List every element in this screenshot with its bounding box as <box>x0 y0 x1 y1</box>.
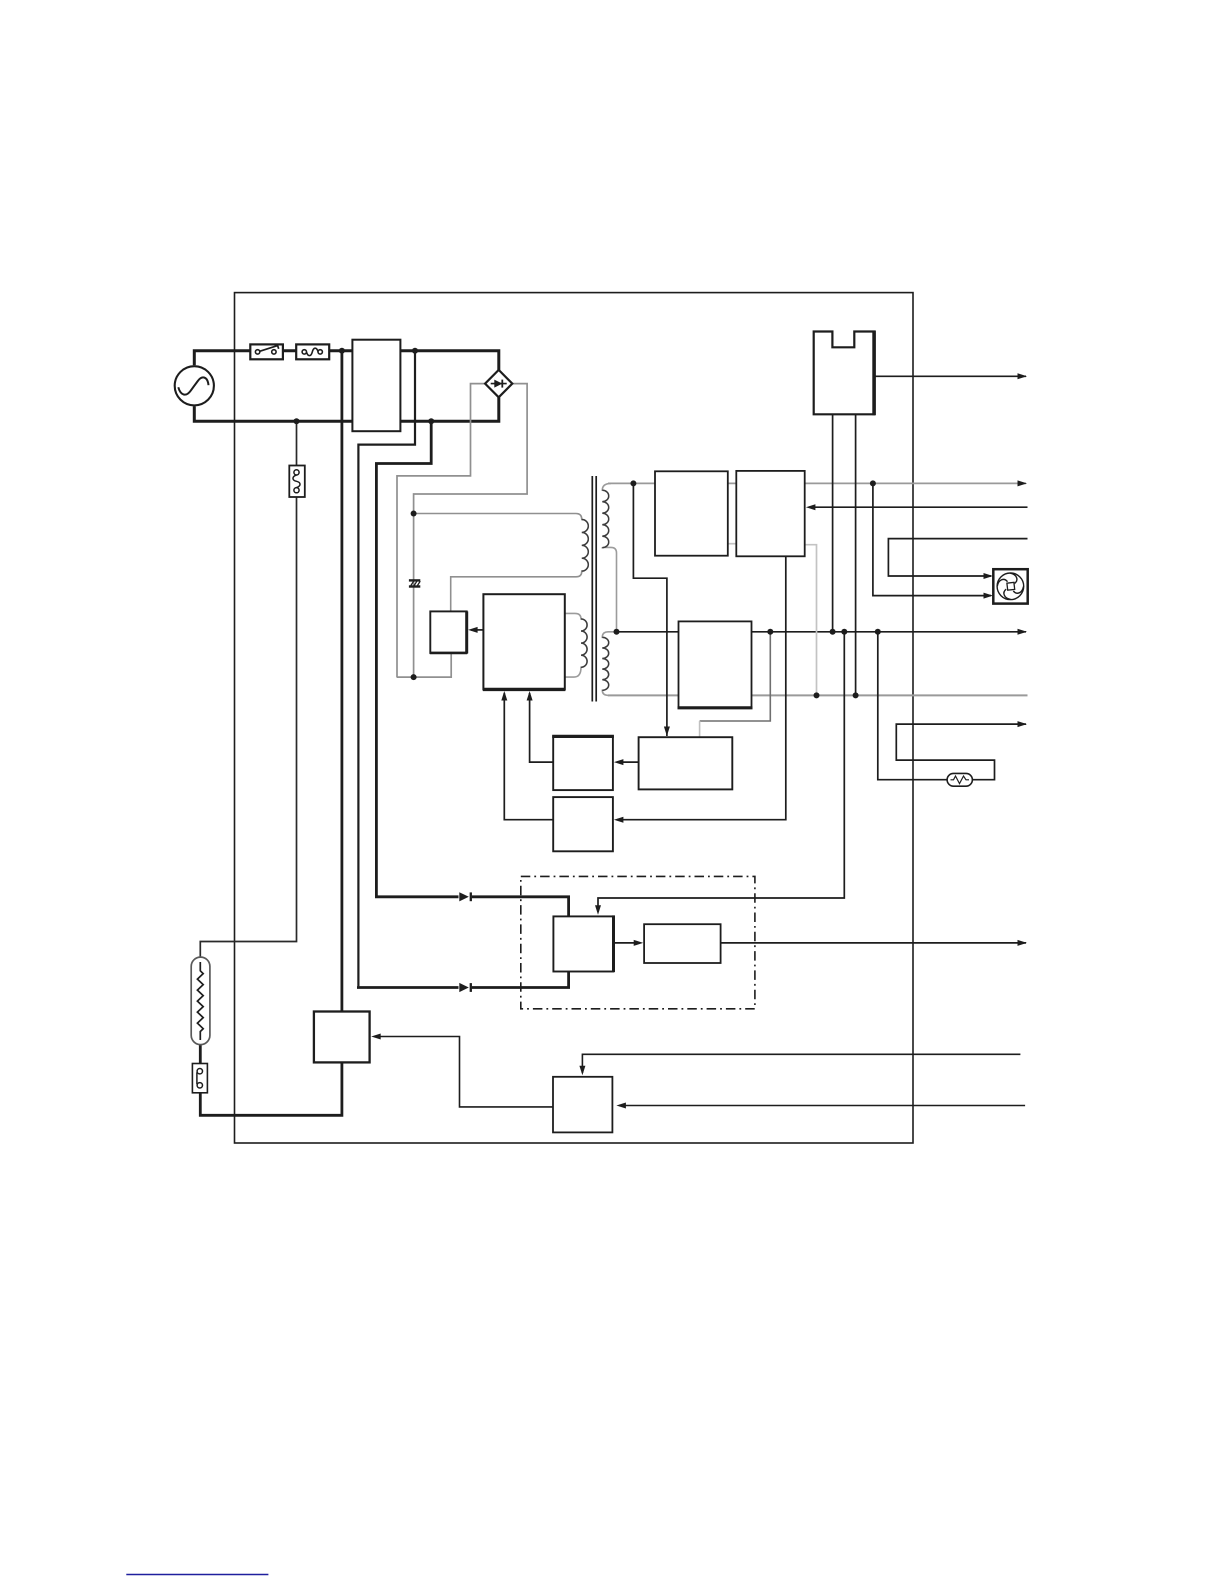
wire: fusing module output line with arrow <box>721 942 1026 944</box>
switch SW1 <box>250 344 283 359</box>
wire: thick feed into fusing module box top <box>472 897 569 917</box>
wire: secondary ground bus <box>608 694 1028 696</box>
diode D3 (bottom feed) <box>459 983 471 992</box>
transformer auxiliary winding P2 <box>565 613 587 677</box>
wire: connector output line <box>874 375 1026 377</box>
wire: connector pin 1 to mid bus <box>832 414 834 632</box>
gate driver block <box>430 611 467 653</box>
wire: N line down to fusing unit diode 2 <box>376 421 458 897</box>
transformer core <box>592 476 596 702</box>
wire: regulator to ground bus (light) <box>805 545 817 696</box>
heater triac block <box>314 1012 370 1063</box>
wire: fan drive from +24V bus <box>873 483 991 595</box>
diode D2 (top feed) <box>459 892 471 901</box>
wire: thermistor sensing loop with output arrow <box>878 632 1026 780</box>
PWM control IC block U1 <box>483 594 565 689</box>
wire: bridge positive output to primary winding <box>414 384 527 514</box>
heater lamp H1 <box>191 957 210 1045</box>
wire: triac control input from drive block <box>374 1037 553 1107</box>
photocoupler B block <box>553 797 613 851</box>
chassis ground symbol <box>409 580 420 586</box>
wire: remote input to regulator <box>809 506 1028 508</box>
wire: photocoupler B to PWM controller <box>504 693 553 820</box>
wire: primary ground horizontal to switching device <box>397 653 452 677</box>
power supply unit boundary box <box>235 293 914 1143</box>
wire: +24V tap to error amp input <box>633 483 667 736</box>
error amp block <box>639 737 733 789</box>
transformer secondary winding S1 <box>602 483 616 631</box>
wire: +24V secondary bus with output arrow <box>608 482 1026 484</box>
wire: error amp to photocoupler A <box>617 761 639 763</box>
thermistor TH1 <box>947 773 972 786</box>
wire: inter-block link between rectifier and regulator <box>725 543 739 545</box>
wire: bridge negative output to primary ground bus <box>397 384 485 677</box>
fuse F1 <box>296 344 329 359</box>
wire: photocoupler A to PWM controller <box>530 693 554 762</box>
transformer primary winding P1 <box>414 514 589 612</box>
wire: AC bottom rail (N) <box>194 397 499 421</box>
wire: regulator bottom to photocoupler B <box>617 556 786 819</box>
bridge rectifier D1 <box>485 370 512 397</box>
fusing control module dash-dot boundary <box>521 876 755 1008</box>
secondary output block <box>678 621 753 707</box>
heater drive block <box>553 1077 612 1133</box>
fusing module output block <box>644 924 721 963</box>
AC source G1 <box>175 366 214 405</box>
thermostat TS1 <box>192 1064 207 1093</box>
wire: connector pin 2 to ground bus <box>855 414 857 695</box>
wire: secondary mid bus with output arrow <box>617 631 1027 633</box>
wire: control input from mid bus down to error amp <box>700 632 771 721</box>
arrowheads <box>371 373 1027 1108</box>
wire: L line horizontal run into diode <box>357 986 459 989</box>
junction dots <box>294 348 881 699</box>
regulator block <box>736 471 804 556</box>
connector CN1 <box>814 331 874 416</box>
transformer secondary winding S2 <box>602 632 616 696</box>
wire: feedback from mid bus into fusing control <box>598 632 844 912</box>
noise filter block <box>352 340 400 432</box>
secondary rectifier block <box>655 471 728 555</box>
wire: drive block top input line <box>582 1054 1020 1073</box>
wire: thermal fuse to heater lamp top <box>200 421 296 971</box>
wire: PWM controller to gate driver arrow <box>471 629 483 631</box>
wire: fusing switch to output block arrow <box>614 942 641 944</box>
wire: primary ground vertical through chassis symbol <box>413 514 415 678</box>
wire: L line down to fusing unit diode 1 <box>358 351 415 987</box>
wire: drive block right input line <box>619 1105 1025 1107</box>
wire: live feed to heater control triac <box>340 351 343 1012</box>
wire: control input light segment into error amp top <box>699 721 701 737</box>
wire: fan supply input loop <box>888 539 1027 576</box>
thermal fuse F2 <box>289 466 305 498</box>
photocoupler A block <box>552 736 614 790</box>
fusing module switch block <box>553 915 613 972</box>
wire: AC top rail (L) <box>194 351 499 371</box>
wire: heater lamp bottom through thermostat to triac <box>200 1032 342 1116</box>
footer blue line <box>126 1574 268 1576</box>
fan FM1 <box>993 569 1027 603</box>
wire: thick feed into fusing module box bottom <box>472 972 569 988</box>
